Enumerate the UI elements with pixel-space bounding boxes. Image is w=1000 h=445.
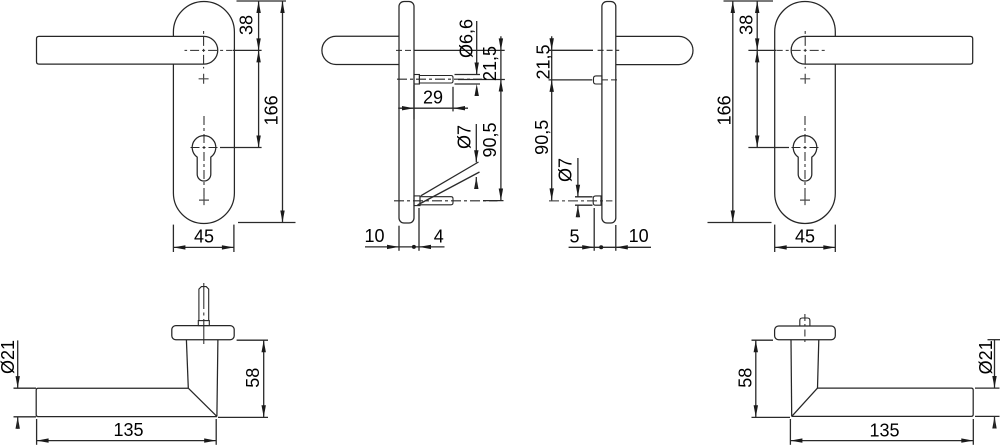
lever bar A [37,36,218,64]
svg-text:135: 135 [113,420,143,440]
keyhole extension line left D [748,147,789,149]
lower screw centerline B [394,200,498,202]
svg-text:58: 58 [243,368,263,388]
handle axis centerline C [598,49,620,51]
neck right edge F [818,340,819,388]
svg-text:21,5: 21,5 [480,46,500,81]
dimension 135 E [36,419,38,445]
dimension lines diameter 6.6 B [455,74,481,76]
keyhole centerline vertical A [203,116,205,196]
shelf line at right edge F [988,339,1000,341]
dimension 45 D [774,225,776,252]
svg-text:10: 10 [364,226,384,246]
svg-text:38: 38 [737,15,757,35]
upper screw centerline B [397,78,482,80]
collar rosette E [172,326,234,340]
pivot extension line right A [233,49,262,51]
neck left edge F [790,340,793,417]
svg-text:Ø7: Ø7 [454,125,474,149]
collar rosette F [775,326,836,340]
screw cross lower A [199,195,209,205]
extension line at upper screw axis B [458,79,505,81]
extension lines diameter 7 C [575,196,593,198]
backplate edge C [602,2,616,224]
lever bar D [791,36,973,64]
dimension 58 E [237,339,268,341]
pivot centerline vertical D [804,31,806,69]
spindle base E [198,321,209,326]
pivot extension line left D [748,49,776,51]
extension line top D [724,0,774,2]
lower screw stub C [593,196,601,205]
euro profile keyhole A [192,136,216,181]
svg-text:38: 38 [237,15,257,35]
handle axis extension line B [415,49,505,51]
dimension diameter 21 E [14,387,37,389]
keyhole centerline horizontal D [789,147,821,149]
svg-text:21,5: 21,5 [533,44,553,79]
grip bar F [792,388,974,416]
svg-text:166: 166 [261,95,281,125]
dimension 29 B [413,85,415,120]
euro profile keyhole D [793,136,817,181]
dimension diameter 21 F [975,387,1000,389]
dimension 135 F [789,419,791,445]
extension line at lower screw axis B [483,200,504,202]
handle grip C [616,36,693,64]
pivot centerline horizontal A [185,49,233,51]
svg-text:29: 29 [423,88,443,108]
backplate D [775,2,836,224]
keyhole centerline vertical D [804,116,806,196]
dimension line 38 and pivot-to-keyhole A [258,1,260,148]
svg-text:90,5: 90,5 [480,122,500,157]
dimension line 166 A [282,1,284,223]
upper screw centerline C [602,79,620,81]
svg-text:4: 4 [434,226,444,246]
upper screw stub C [594,76,603,84]
keyhole centerline horizontal A [189,147,221,149]
svg-text:Ø21: Ø21 [976,340,996,374]
svg-text:166: 166 [715,95,735,125]
extension line bottom A [238,222,296,224]
backplate edge B [399,2,414,224]
dimension line 166 D [732,1,734,223]
svg-text:5: 5 [569,227,579,247]
svg-text:90,5: 90,5 [532,120,552,155]
upper screw head B [414,75,419,85]
pivot centerline horizontal D [777,49,825,51]
dimension line 38 and pivot-to-keyhole D [756,1,758,148]
keyhole extension line right A [220,147,262,149]
dimension 5 and 10 C [593,208,595,251]
miter joint line F [792,388,818,416]
upper screw shaft B [419,76,453,84]
svg-text:135: 135 [869,421,899,441]
screw cross upper D [800,74,810,84]
pivot centerline vertical A [203,31,205,69]
spindle centerline E [203,283,205,344]
handle grip B [322,36,399,64]
neck right edge E [217,340,218,417]
dimension line 21,5 and 90,5 B [500,36,502,200]
miter joint line E [188,388,217,416]
oblique extension lines diameter 7 B [418,172,480,205]
backplate A [173,2,234,224]
lower screw head B [414,196,420,206]
lower screw shaft B [420,197,453,205]
screw cross upper A [199,74,209,84]
neck left edge E [186,340,188,389]
spindle nub F [800,318,810,326]
dimension line 21,5 and 90,5 C [551,36,553,200]
handle axis extension line C [549,49,594,51]
handle axis centerline B [396,49,415,51]
extension line top A [237,0,287,2]
spindle centerline F [804,314,806,344]
spindle E [199,287,209,321]
lower screw centerline C [549,200,612,202]
extension line bottom D [708,222,772,224]
svg-text:10: 10 [629,226,649,246]
screw cross lower D [800,195,810,205]
grip bar E [36,388,217,416]
svg-text:45: 45 [795,226,815,246]
svg-text:45: 45 [194,226,214,246]
svg-text:Ø6,6: Ø6,6 [456,19,476,58]
svg-text:Ø21: Ø21 [0,340,18,374]
dimension 58 F [752,339,774,341]
svg-text:Ø7: Ø7 [555,158,575,182]
svg-text:58: 58 [736,368,756,388]
dimension line diameter 7 B [475,124,477,162]
dimension line diameter 7 C [577,158,579,197]
upper screw extension line C [549,79,593,81]
dimension 45 A [172,225,174,252]
dimension 10 and 4 B [398,226,400,251]
